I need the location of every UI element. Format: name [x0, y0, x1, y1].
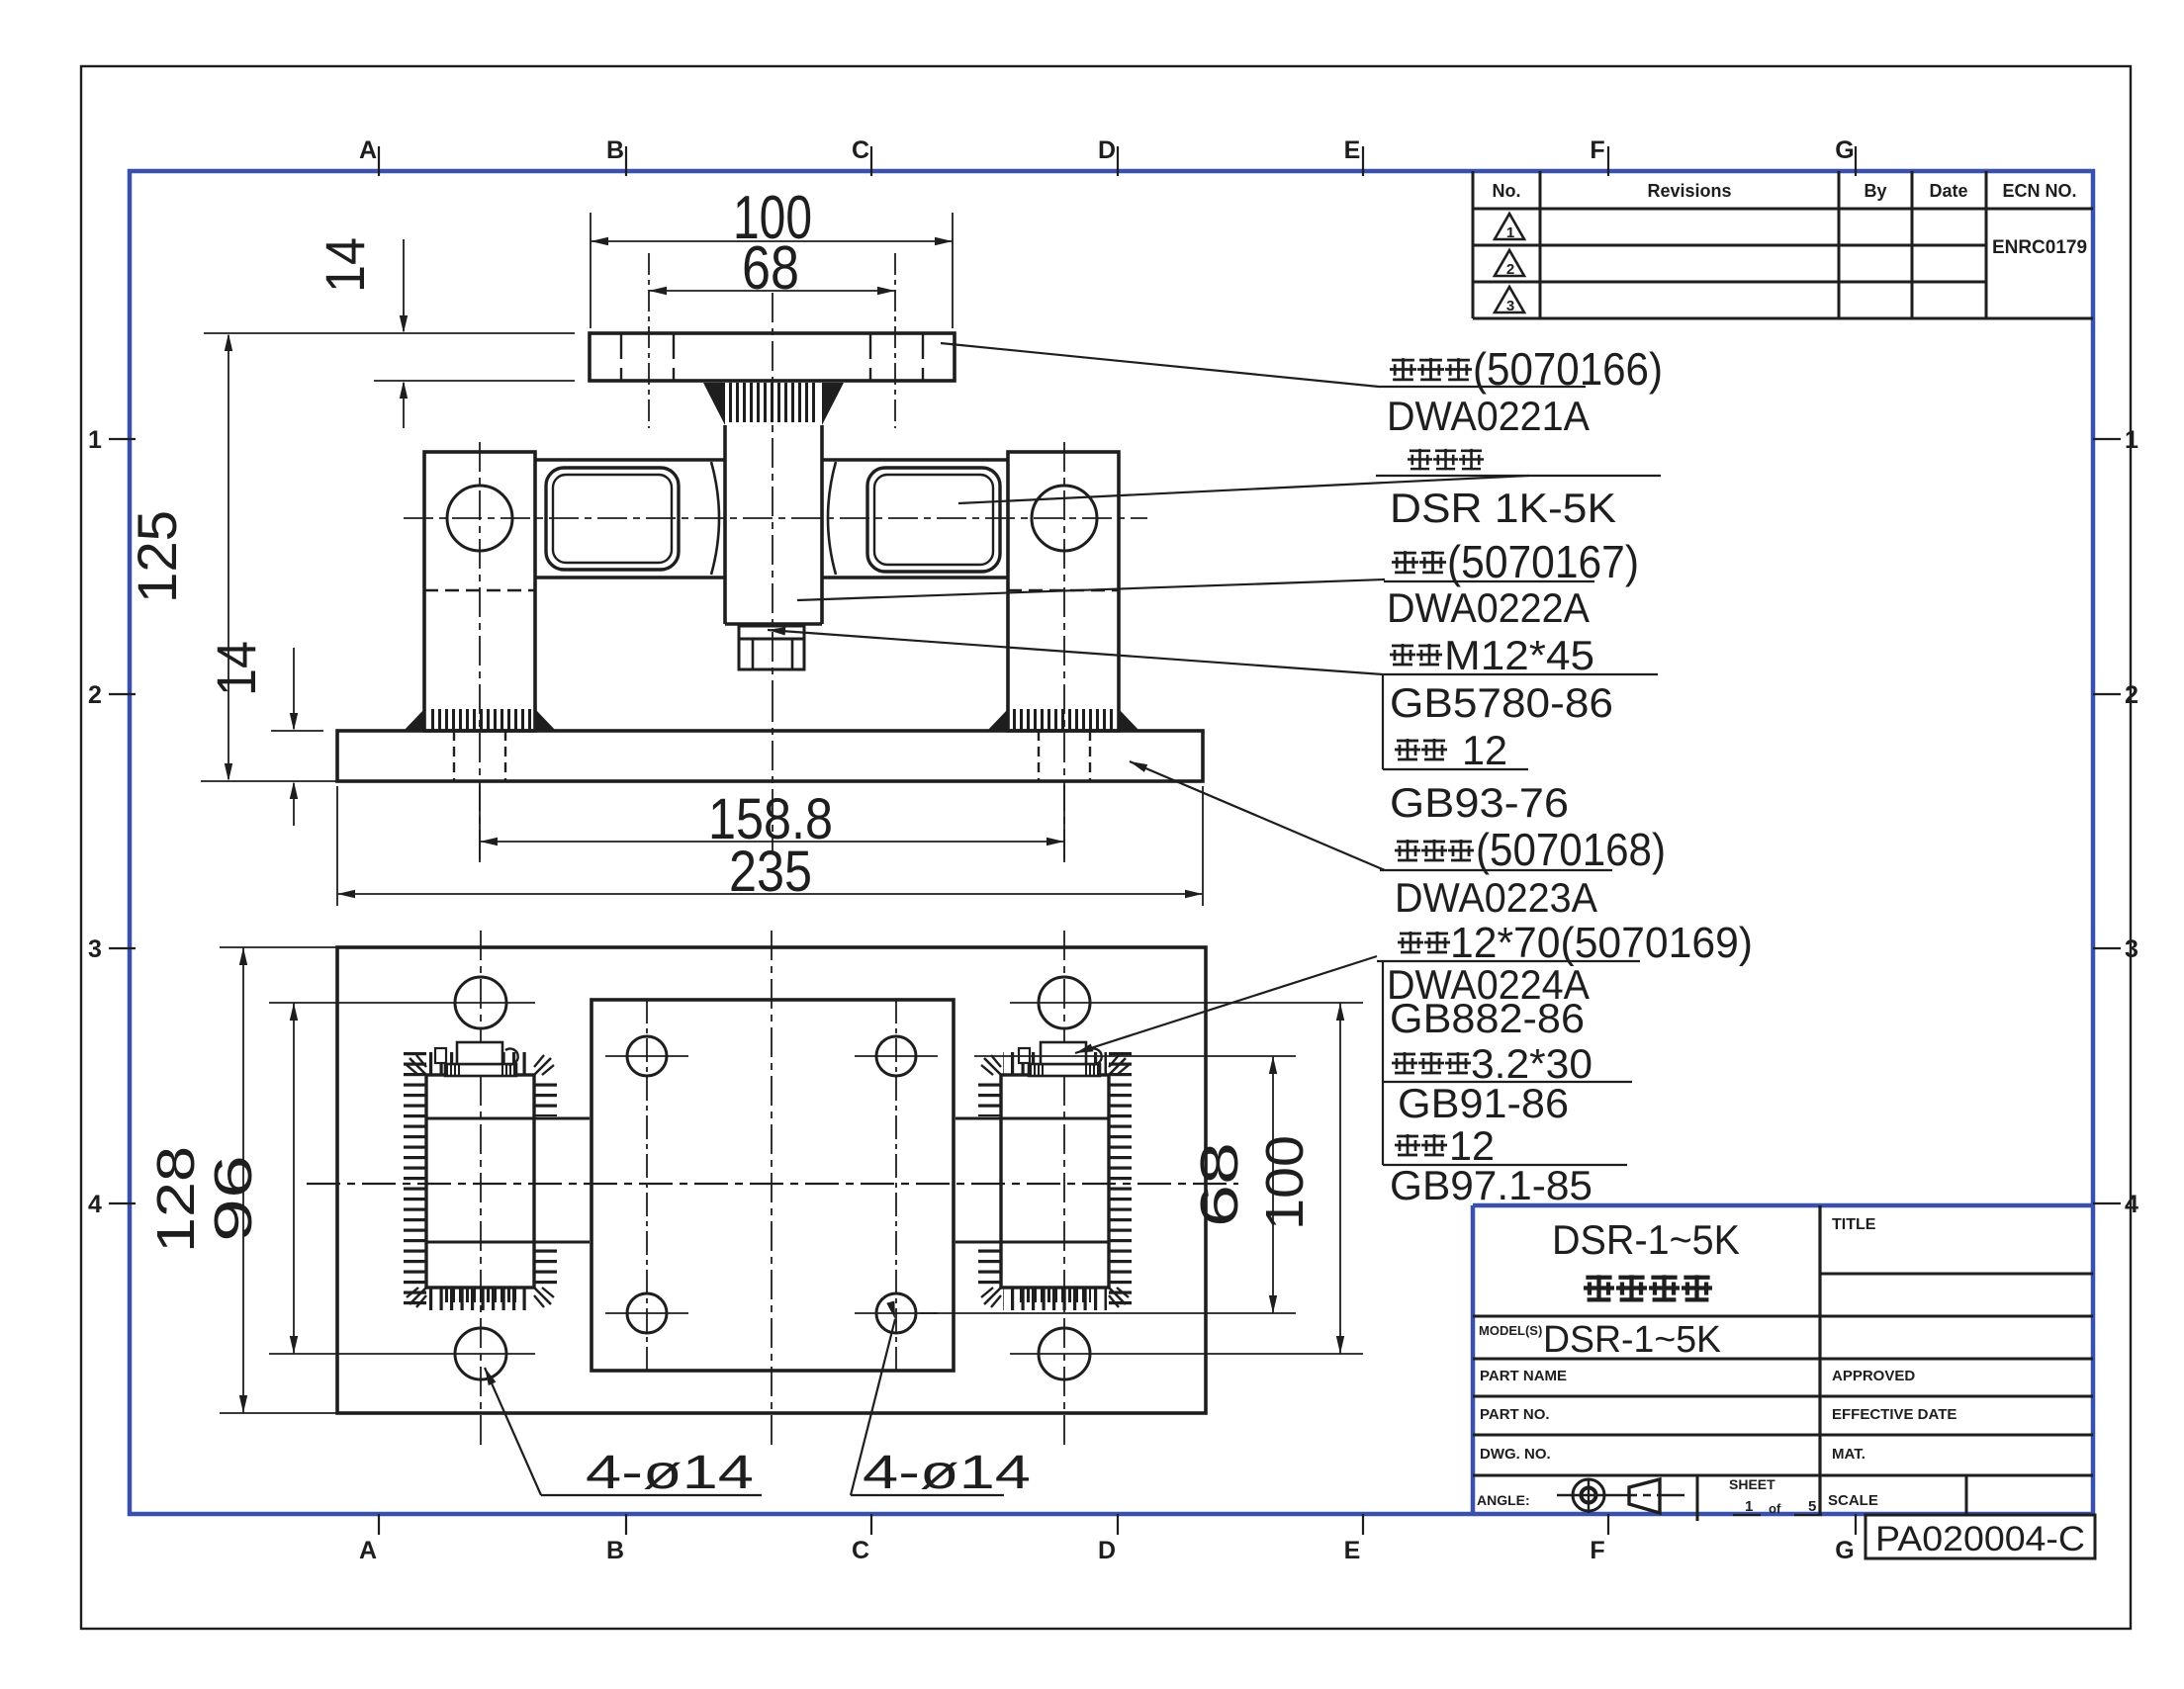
svg-text:12*70(5070169): 12*70(5070169) [1450, 919, 1753, 967]
pillar outline plan [1001, 1075, 1109, 1288]
right pillar centerline [1063, 442, 1065, 862]
plan view top plate [591, 1000, 954, 1371]
svg-text:D: D [1098, 1537, 1116, 1564]
right pillar [1008, 452, 1119, 731]
svg-text:2: 2 [1506, 261, 1514, 278]
svg-text:14: 14 [205, 641, 267, 696]
label 4-o14 left [485, 1368, 541, 1495]
hole centerline [648, 253, 650, 428]
pillar weld hatch [404, 1052, 426, 1311]
base hole hidden [1089, 731, 1091, 781]
svg-text:SCALE: SCALE [1828, 1492, 1878, 1509]
svg-text:100: 100 [1255, 1135, 1315, 1230]
svg-text:2: 2 [88, 681, 102, 709]
svg-text:DSR-1~5K: DSR-1~5K [1543, 1319, 1721, 1361]
svg-text:3: 3 [88, 935, 102, 963]
svg-text:DWA0221A: DWA0221A [1387, 393, 1590, 439]
ext line plate top [204, 332, 575, 334]
svg-text:128: 128 [146, 1146, 206, 1253]
svg-text:2: 2 [2125, 681, 2138, 709]
beam top left [535, 458, 725, 462]
plan view base plate [337, 947, 1206, 1413]
dim 125 left [227, 335, 229, 779]
weld fillets at pillar bases [404, 709, 424, 731]
sensor pocket left [546, 468, 679, 570]
title block frame [1473, 1203, 2093, 1208]
vertical centerline [772, 293, 773, 692]
sensor pocket right [867, 468, 1000, 572]
svg-text:1: 1 [1506, 224, 1514, 241]
weld transition under top plate [703, 383, 725, 425]
svg-text:4: 4 [88, 1191, 102, 1218]
svg-text:G: G [1835, 136, 1854, 164]
svg-text:PART NO.: PART NO. [1480, 1406, 1550, 1423]
beam bottom right [822, 576, 1008, 579]
dwg number box PA020004-C [1865, 1515, 2095, 1558]
revision triangles [1495, 214, 1524, 239]
third angle projection target symbol [1573, 1479, 1604, 1511]
svg-text:M12*45: M12*45 [1444, 632, 1594, 678]
washer under clamp [739, 626, 804, 639]
pin axle detail plan [445, 1064, 516, 1076]
svg-text:Date: Date [1929, 181, 1967, 201]
base plate [337, 731, 1203, 781]
revisions table [1472, 171, 1475, 318]
svg-text:MAT.: MAT. [1832, 1446, 1865, 1463]
right pillar centerline plan [1063, 931, 1065, 1446]
horizontal centerline [404, 517, 1147, 519]
label 4-o14 right [851, 1319, 895, 1495]
svg-text:GB91-86: GB91-86 [1398, 1080, 1569, 1126]
callout 承重架(5070166) [1390, 358, 1416, 381]
callout 螺栓M12*45 [1390, 644, 1415, 666]
svg-text:4: 4 [2125, 1191, 2138, 1218]
svg-text:3: 3 [1506, 298, 1514, 314]
left pillar centerline plan [480, 931, 482, 1446]
svg-text:B: B [606, 136, 624, 164]
blue drawing frame [130, 171, 2093, 1514]
top plate hole hidden line [922, 333, 924, 381]
svg-text:C: C [852, 136, 869, 164]
leader to clamp block [797, 579, 1385, 600]
clamp block bottom edge [725, 622, 822, 626]
top plate hole hidden line [673, 333, 675, 381]
beam edges in plan [426, 1117, 590, 1120]
front view: top plate (load bearing frame) [590, 333, 955, 381]
plan main centerlines [307, 1183, 1238, 1185]
svg-text:APPROVED: APPROVED [1832, 1368, 1915, 1384]
svg-text:G: G [1835, 1537, 1854, 1564]
beam top right [822, 458, 1008, 462]
dim 235 [336, 786, 338, 906]
svg-text:4-ø14: 4-ø14 [863, 1447, 1031, 1499]
bolt M12 hex head [739, 639, 804, 669]
svg-text:C: C [852, 1537, 869, 1564]
leader to sensor [958, 476, 1528, 503]
svg-text:GB97.1-85: GB97.1-85 [1390, 1162, 1592, 1208]
svg-text:ENRC0179: ENRC0179 [1992, 237, 2087, 258]
ext line plate bottom [374, 380, 575, 382]
dim 100 top [590, 213, 591, 328]
ext line base top [271, 730, 323, 732]
svg-text:E: E [1344, 136, 1361, 164]
callout 墊圈 12 [1395, 739, 1420, 760]
leader to base plate [1130, 761, 1385, 870]
center load column [723, 425, 727, 624]
plan corner holes 4-o14 [455, 977, 506, 1028]
leader to bolt [768, 630, 1383, 674]
callout 夾塊(5070167) [1392, 551, 1418, 574]
plan top-plate holes [627, 1036, 667, 1076]
top plate hole hidden line [620, 333, 622, 381]
pillar weld hatch [1109, 1052, 1132, 1311]
corner hole tick / ext lines [269, 1002, 535, 1004]
callout 開口銷3.2*30 [1392, 1052, 1417, 1074]
leader to top plate [941, 343, 1379, 387]
svg-text:ECN NO.: ECN NO. [2002, 181, 2076, 201]
svg-text:DSR-1~5K: DSR-1~5K [1552, 1216, 1740, 1263]
svg-text:EFFECTIVE DATE: EFFECTIVE DATE [1832, 1406, 1956, 1423]
svg-text:1: 1 [1745, 1498, 1753, 1515]
left pillar centerline [479, 442, 481, 862]
callout 銷軸12*70(5070169) [1398, 932, 1423, 953]
svg-text:DWA0222A: DWA0222A [1387, 584, 1590, 631]
svg-text:1: 1 [2125, 426, 2138, 454]
pillar outline plan [426, 1075, 534, 1288]
pin axle detail plan [1029, 1064, 1100, 1076]
dim 158.8 [479, 785, 481, 862]
svg-text:96: 96 [204, 1155, 263, 1242]
hidden beam line in pillars [424, 589, 535, 591]
svg-text:By: By [1864, 181, 1886, 201]
dim 100 plan [1339, 1003, 1341, 1354]
svg-text:PA020004-C: PA020004-C [1875, 1520, 2085, 1558]
bracket line DWA0224A group [1382, 961, 1384, 1165]
svg-text:(5070168): (5070168) [1476, 824, 1666, 875]
svg-text:DWA0223A: DWA0223A [1395, 874, 1597, 921]
beam bottom left [535, 576, 725, 579]
title 安装模块 [1584, 1275, 1614, 1300]
svg-text:D: D [1098, 136, 1116, 164]
bracket line GB5780 group [1382, 674, 1384, 769]
dim 68 top [649, 290, 895, 292]
svg-text:E: E [1344, 1537, 1361, 1564]
projection cone symbol [1629, 1479, 1660, 1513]
svg-text:14: 14 [314, 237, 376, 293]
svg-text:5: 5 [1808, 1498, 1816, 1515]
dim 96 [293, 1003, 295, 1354]
svg-text:GB5780-86: GB5780-86 [1390, 679, 1613, 726]
ext line base bottom [201, 780, 336, 782]
svg-text:ANGLE:: ANGLE: [1477, 1492, 1530, 1508]
hole centerline [894, 253, 896, 428]
svg-text:(5070167): (5070167) [1447, 536, 1639, 587]
base hole hidden [1038, 731, 1040, 781]
svg-text:A: A [359, 1537, 377, 1564]
callout 支承座(5070168) [1395, 840, 1420, 861]
svg-text:68: 68 [1190, 1142, 1249, 1227]
svg-text:of: of [1769, 1501, 1781, 1516]
svg-text:3: 3 [2125, 935, 2138, 963]
svg-text:DSR 1K-5K: DSR 1K-5K [1390, 485, 1616, 531]
svg-text:1: 1 [88, 426, 102, 454]
pillar pin holes [447, 486, 512, 551]
left pillar [424, 452, 535, 731]
svg-text:68: 68 [742, 234, 799, 303]
leader to pin axle [1075, 956, 1377, 1053]
title block inner lines [1818, 1205, 1821, 1514]
svg-text:PART NAME: PART NAME [1480, 1368, 1567, 1384]
svg-text:DWG. NO.: DWG. NO. [1480, 1446, 1551, 1463]
svg-text:TITLE: TITLE [1832, 1216, 1876, 1233]
svg-text:235: 235 [729, 840, 812, 904]
top plate hole hidden line [869, 333, 871, 381]
flexure curves [711, 462, 719, 575]
svg-text:F: F [1590, 1537, 1604, 1564]
svg-text:F: F [1590, 136, 1604, 164]
svg-text:4-ø14: 4-ø14 [586, 1447, 754, 1499]
svg-text:125: 125 [126, 510, 188, 603]
svg-text:No.: No. [1493, 181, 1521, 201]
dim 68 plan [974, 1055, 1296, 1057]
callout 傳感器 [1408, 449, 1432, 470]
base hole hidden [504, 731, 506, 781]
base hole hidden [453, 731, 455, 781]
svg-text:SHEET: SHEET [1729, 1476, 1775, 1492]
plan hole centerlines vertical [646, 1000, 648, 1371]
svg-text:B: B [606, 1537, 624, 1564]
svg-text:A: A [359, 136, 377, 164]
svg-text:GB882-86: GB882-86 [1390, 995, 1585, 1041]
dim 128 [220, 946, 336, 948]
callout 墊圈12 [1395, 1134, 1420, 1156]
svg-text:Revisions: Revisions [1647, 181, 1731, 201]
svg-text:MODEL(S): MODEL(S) [1479, 1323, 1542, 1338]
svg-text:GB93-76: GB93-76 [1390, 779, 1569, 826]
svg-text:12: 12 [1462, 727, 1507, 773]
